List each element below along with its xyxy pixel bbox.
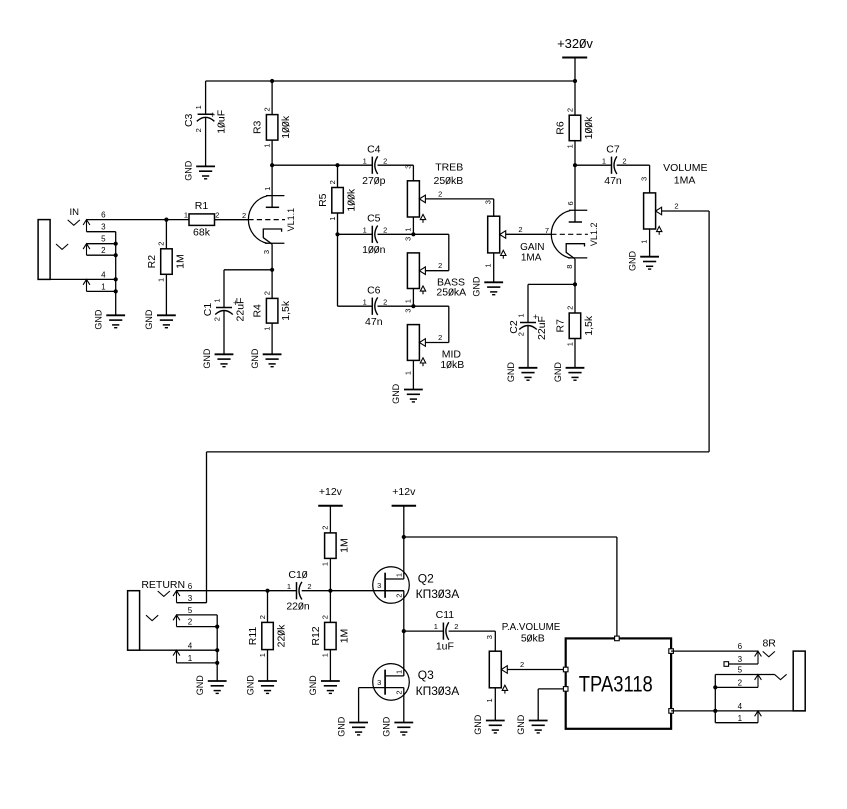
wire VL1.2 plate (574, 165, 576, 222)
junction speaker pin4 (713, 709, 717, 713)
svg-text:3: 3 (640, 177, 649, 181)
svg-text:2: 2 (438, 333, 442, 342)
svg-text:3: 3 (403, 237, 412, 241)
svg-text:1,5k: 1,5k (583, 315, 595, 336)
svg-text:1: 1 (403, 371, 412, 375)
svg-text:+12v: +12v (319, 486, 343, 498)
svg-text:C4: C4 (367, 143, 381, 155)
svg-text:2: 2 (157, 242, 166, 246)
capacitor C4 (362, 143, 387, 187)
svg-text:3: 3 (262, 250, 271, 254)
svg-text:VL1.2: VL1.2 (589, 223, 599, 247)
svg-text:1M: 1M (338, 629, 350, 644)
wire MID to ground (412, 360, 414, 389)
svg-text:GND: GND (627, 251, 637, 272)
svg-text:220n: 220n (286, 600, 310, 612)
svg-text:1: 1 (363, 297, 367, 306)
triode VL1.2 (545, 201, 599, 268)
svg-text:1: 1 (363, 225, 367, 234)
wire cathode node VL1.1 to C1 (224, 269, 272, 271)
svg-text:2: 2 (383, 297, 387, 306)
svg-text:C6: C6 (367, 284, 381, 296)
svg-text:R11: R11 (247, 627, 259, 646)
svg-text:2: 2 (565, 108, 574, 112)
svg-text:КП303А: КП303А (416, 587, 460, 601)
junction jack pin1 (114, 289, 118, 293)
svg-text:1: 1 (484, 263, 493, 267)
resistor R2 (146, 220, 186, 316)
ground (336, 716, 368, 737)
wire C2 to ground (527, 326, 529, 368)
wire C1 to ground (223, 311, 225, 355)
junction speaker pin2 (713, 685, 717, 689)
resistor R3 (252, 81, 292, 165)
svg-text:50kB: 50kB (521, 632, 545, 644)
ground (473, 714, 505, 735)
junction jack pin5 (114, 242, 118, 246)
svg-text:R6: R6 (555, 121, 567, 135)
svg-text:1MA: 1MA (674, 175, 696, 187)
svg-text:10kB: 10kB (440, 359, 464, 371)
capacitor C1 (202, 298, 246, 322)
junction jack pin2 (114, 253, 118, 257)
svg-text:1M: 1M (338, 538, 350, 553)
ground (472, 276, 504, 297)
svg-text:1: 1 (403, 228, 412, 232)
svg-text:GND: GND (144, 309, 154, 330)
wire GAIN to ground (493, 253, 495, 282)
svg-text:2: 2 (212, 317, 221, 321)
svg-text:IN: IN (69, 207, 79, 218)
wire BASS to row3 (412, 289, 414, 307)
wire B+ rail (206, 80, 575, 82)
capacitor C11 (434, 609, 459, 653)
junction VL1.1 plate (270, 163, 274, 167)
svg-text:100k: 100k (583, 116, 595, 140)
svg-text:22uF: 22uF (536, 316, 548, 340)
svg-text:8: 8 (565, 265, 574, 269)
wire C7 to VOLUME (617, 164, 650, 166)
wire BASS wiper loop (425, 270, 448, 272)
potentiometer TREB 250kB (403, 165, 442, 232)
ground (553, 362, 585, 383)
svg-text:C2: C2 (508, 320, 520, 334)
resistor R1 (184, 200, 219, 238)
svg-text:1: 1 (434, 622, 438, 631)
svg-text:2: 2 (242, 211, 246, 220)
svg-text:1: 1 (395, 573, 404, 577)
wire TREB wiper to GAIN (425, 198, 493, 200)
jack RETURN (128, 579, 218, 681)
junction return pin4 (215, 648, 219, 652)
wire VOLUME to ground (649, 229, 651, 257)
svg-text:2: 2 (321, 615, 330, 619)
junction R5 top (335, 163, 339, 167)
svg-text:8R: 8R (762, 638, 776, 650)
svg-text:3: 3 (738, 655, 743, 664)
svg-text:22uF: 22uF (234, 298, 246, 322)
power +12v (left) (318, 486, 343, 533)
svg-text:2: 2 (262, 291, 271, 295)
svg-text:C3: C3 (183, 113, 195, 127)
svg-text:7: 7 (545, 226, 549, 235)
wire C11 row (404, 630, 444, 632)
svg-text:1: 1 (738, 714, 743, 723)
svg-text:2: 2 (321, 526, 330, 530)
svg-text:1: 1 (640, 240, 649, 244)
resistor R7 (555, 284, 595, 367)
ground (382, 716, 414, 737)
svg-text:1: 1 (328, 217, 337, 221)
svg-text:2: 2 (383, 156, 387, 165)
junction cathode VL1.1 (270, 268, 274, 272)
ground (627, 251, 659, 272)
svg-text:3: 3 (403, 309, 412, 313)
svg-text:R5: R5 (317, 193, 329, 207)
svg-text:2: 2 (516, 332, 525, 336)
svg-text:1: 1 (101, 282, 106, 291)
svg-text:270p: 270p (362, 175, 386, 187)
resistor 1M bias resistor (321, 526, 351, 591)
svg-text:1MA: 1MA (521, 252, 542, 263)
svg-text:1: 1 (485, 698, 494, 702)
svg-text:Q3: Q3 (418, 668, 434, 682)
junction R11 top (265, 589, 269, 593)
svg-text:2: 2 (454, 622, 458, 631)
svg-text:Q2: Q2 (418, 571, 434, 585)
svg-text:2: 2 (194, 128, 203, 132)
wire C10 row (177, 590, 297, 592)
svg-text:1: 1 (212, 298, 221, 302)
svg-text:1: 1 (262, 327, 271, 331)
ground (183, 160, 215, 181)
wire cathode node VL1.2 to C2 (528, 283, 575, 285)
svg-text:RETURN: RETURN (141, 579, 185, 591)
svg-text:1: 1 (363, 156, 367, 165)
svg-text:5: 5 (188, 606, 193, 615)
svg-text:GND: GND (553, 362, 563, 383)
svg-text:+320v: +320v (557, 36, 593, 51)
junction BASS/MID node (411, 304, 415, 308)
capacitor C6 (363, 284, 388, 328)
svg-text:100n: 100n (362, 244, 386, 256)
svg-text:1,5k: 1,5k (280, 300, 292, 321)
svg-text:2: 2 (518, 225, 522, 234)
svg-text:GND: GND (94, 309, 104, 330)
svg-text:TREB: TREB (435, 161, 463, 173)
svg-text:R2: R2 (146, 255, 158, 269)
svg-text:47n: 47n (365, 316, 383, 328)
svg-text:1M: 1M (174, 254, 186, 269)
svg-text:VOLUME: VOLUME (663, 162, 707, 174)
svg-text:2: 2 (520, 660, 524, 669)
speaker jack 8R (671, 638, 805, 723)
transistor Q3 (373, 664, 460, 701)
svg-text:6: 6 (566, 201, 575, 205)
svg-text:GND: GND (195, 675, 205, 696)
svg-text:TPA3118: TPA3118 (579, 671, 653, 696)
transistor Q2 (373, 567, 460, 604)
svg-text:2: 2 (395, 594, 404, 598)
capacitor C3 (183, 105, 228, 134)
junction R6 top (573, 79, 577, 83)
wire row C5 (338, 233, 373, 235)
svg-text:6: 6 (101, 211, 106, 220)
wire Q2 drain to TPA3118 (404, 536, 617, 538)
svg-text:2: 2 (258, 615, 267, 619)
wire row C6 (338, 305, 373, 307)
wire VL1.2 cathode (574, 259, 576, 285)
svg-text:100k: 100k (345, 188, 357, 212)
svg-text:GND: GND (472, 276, 482, 297)
svg-text:1: 1 (184, 211, 188, 220)
svg-text:2: 2 (383, 225, 387, 234)
wire VL1.1 cathode (271, 244, 273, 270)
svg-text:47n: 47n (604, 175, 622, 187)
svg-text:R7: R7 (555, 319, 567, 333)
label P.A.VOLUME (502, 622, 561, 644)
ground (245, 675, 277, 696)
junction R3 top (270, 79, 274, 83)
svg-text:R12: R12 (310, 626, 322, 645)
svg-text:1: 1 (565, 144, 574, 148)
svg-text:1: 1 (602, 156, 606, 165)
svg-text:220k: 220k (275, 624, 287, 648)
svg-text:6: 6 (188, 582, 193, 591)
svg-text:1uF: 1uF (436, 641, 454, 653)
wire TPA3118 input ground (538, 688, 566, 690)
label MID (440, 349, 464, 371)
power +320v (557, 36, 593, 81)
wire VL1.1 grid (215, 219, 249, 221)
ground (94, 309, 126, 330)
svg-text:2: 2 (328, 180, 337, 184)
svg-text:GND: GND (391, 383, 401, 404)
wire C3 to ground (205, 118, 207, 167)
svg-text:10uF: 10uF (216, 110, 228, 134)
svg-text:1: 1 (395, 670, 404, 674)
ground (195, 675, 227, 696)
svg-text:1: 1 (403, 299, 412, 303)
wire MID wiper loop (425, 342, 448, 344)
label VOLUME (663, 162, 707, 187)
capacitor C10 (286, 569, 311, 613)
svg-text:GND: GND (250, 348, 260, 369)
ground (506, 362, 538, 383)
wire C4 to TREB (378, 164, 414, 166)
resistor R6 (555, 81, 595, 165)
svg-text:2: 2 (738, 679, 743, 688)
potentiometer BASS 250kA (403, 237, 442, 303)
svg-text:2: 2 (395, 690, 404, 694)
junction R2 top (164, 218, 168, 222)
capacitor C5 (362, 212, 387, 256)
resistor R5 (317, 165, 357, 234)
wire TREB to row2 (412, 217, 414, 234)
wire node A (272, 164, 372, 166)
wire C10 to Q2 gate (302, 590, 404, 592)
ground (391, 383, 423, 404)
svg-text:1: 1 (516, 313, 525, 317)
wire Q3 gate to ground (359, 687, 386, 689)
wire R1 to grid (215, 219, 249, 221)
svg-text:GND: GND (245, 675, 255, 696)
junction R6 bottom (573, 163, 577, 167)
IC TPA3118 (563, 636, 673, 729)
svg-text:1: 1 (565, 342, 574, 346)
svg-text:R1: R1 (195, 200, 209, 212)
ground (250, 348, 282, 369)
ground (144, 309, 176, 330)
svg-text:GND: GND (336, 716, 346, 737)
svg-text:2: 2 (307, 582, 311, 591)
resistor R12 (310, 591, 350, 681)
svg-text:1: 1 (287, 582, 291, 591)
svg-text:C7: C7 (606, 143, 620, 155)
wire Q3 source to ground (403, 688, 405, 723)
wire P.A.VOLUME to ground (494, 688, 496, 721)
potentiometer VOLUME 1MA (640, 177, 679, 244)
svg-text:P.A.VOLUME: P.A.VOLUME (502, 622, 561, 633)
wire +12v to Q2 drain (403, 537, 405, 579)
svg-text:GND: GND (382, 716, 392, 737)
svg-text:4: 4 (188, 641, 193, 650)
power +12v (right) (392, 486, 417, 537)
svg-text:GND: GND (516, 714, 526, 735)
svg-text:1: 1 (194, 105, 203, 109)
svg-text:1: 1 (263, 187, 272, 191)
capacitor C7 (602, 143, 627, 187)
wire GAIN wiper to VL1.2 grid (506, 233, 552, 235)
capacitor C2 (508, 312, 548, 340)
wire C3 to rail (205, 81, 207, 114)
svg-text:GND: GND (473, 714, 483, 735)
svg-text:2: 2 (188, 618, 193, 627)
svg-text:+12v: +12v (392, 486, 416, 498)
junction C11 node (402, 629, 406, 633)
svg-text:1: 1 (157, 278, 166, 282)
junction R5 bottom (335, 232, 339, 236)
junction jack pin4 (114, 277, 118, 281)
junction return pin1 (215, 661, 219, 665)
wire VL1.1 plate (271, 165, 273, 207)
resistor R4 (252, 270, 292, 355)
svg-text:GND: GND (202, 348, 212, 369)
svg-text:2: 2 (215, 211, 219, 220)
junction TREB/BASS node (411, 232, 415, 236)
svg-text:GND: GND (308, 675, 318, 696)
svg-text:КП303А: КП303А (416, 684, 460, 698)
wire feedback VOLUME wiper to RETURN jack (662, 210, 710, 212)
label TREB (434, 161, 464, 186)
junction return pin2 (215, 625, 219, 629)
svg-text:1: 1 (258, 653, 267, 657)
triode VL1.1 (242, 187, 296, 254)
svg-text:3: 3 (101, 223, 106, 232)
svg-text:GND: GND (183, 160, 193, 181)
resistor R11 (247, 591, 287, 681)
svg-text:C5: C5 (367, 212, 381, 224)
wire C11 to P.A.VOLUME (449, 630, 496, 632)
svg-text:3: 3 (377, 678, 381, 687)
input jack IN (38, 207, 189, 315)
svg-text:GND: GND (506, 362, 516, 383)
wire P.A.VOLUME wiper to TPA3118 (507, 669, 565, 671)
svg-text:100k: 100k (280, 115, 292, 139)
junction R12 top (328, 589, 332, 593)
label GAIN (520, 242, 544, 263)
svg-text:2: 2 (101, 246, 106, 255)
svg-text:2: 2 (565, 306, 574, 310)
svg-text:2: 2 (262, 107, 271, 111)
svg-text:2: 2 (438, 189, 442, 198)
svg-text:68k: 68k (193, 227, 211, 239)
wire left column to C6 (337, 234, 339, 306)
svg-text:1: 1 (188, 654, 193, 663)
potentiometer GAIN 1MA (484, 200, 523, 267)
ground (308, 675, 340, 696)
label BASS (436, 276, 466, 298)
svg-text:C1: C1 (202, 303, 214, 317)
svg-text:5: 5 (738, 666, 743, 675)
svg-text:4: 4 (738, 702, 743, 711)
svg-text:3: 3 (484, 200, 493, 204)
potentiometer P.A.VOLUME 50kB (485, 635, 524, 702)
svg-text:3: 3 (188, 594, 193, 603)
svg-text:2: 2 (438, 261, 442, 270)
junction Q2 drain (402, 535, 406, 539)
ground (516, 714, 548, 735)
wire Q3 drain (403, 631, 405, 676)
svg-text:R4: R4 (252, 304, 264, 318)
svg-text:1: 1 (321, 562, 330, 566)
svg-text:1: 1 (262, 144, 271, 148)
svg-text:3: 3 (403, 165, 412, 169)
ground (202, 348, 234, 369)
svg-text:VL1.1: VL1.1 (286, 208, 296, 232)
svg-text:2: 2 (674, 201, 678, 210)
svg-text:1: 1 (321, 653, 330, 657)
potentiometer MID 10kB (403, 309, 442, 376)
svg-text:2: 2 (622, 156, 626, 165)
wire R6 to C7 (575, 164, 612, 166)
svg-text:6: 6 (738, 642, 743, 651)
svg-text:3: 3 (485, 635, 494, 639)
svg-text:3: 3 (377, 581, 381, 590)
svg-text:4: 4 (101, 270, 106, 279)
svg-text:R3: R3 (252, 120, 264, 134)
svg-text:C11: C11 (436, 609, 455, 621)
wire Q2 source (403, 591, 405, 631)
junction cathode VL1.2 (573, 282, 577, 286)
svg-text:5: 5 (101, 235, 106, 244)
